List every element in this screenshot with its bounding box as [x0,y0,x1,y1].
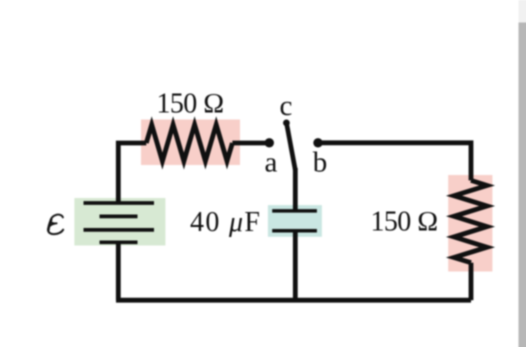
resistor R1 highlight [141,120,240,166]
svg-text:150 Ω: 150 Ω [157,88,225,119]
svg-text:c: c [280,90,293,122]
resistor R2 highlight [448,175,492,272]
resistor R2 zigzag [454,180,487,262]
capacitor C1 top plate [272,209,317,213]
label EMF script epsilon [48,215,63,235]
bottom wire [116,298,471,303]
wire: resistor R2 to bottom [469,263,474,301]
scrollbar thumb [519,23,526,347]
node c [283,120,290,127]
wire: capacitor to bottom wire [293,232,298,300]
svg-text:b: b [313,146,328,178]
svg-text:40 μF: 40 μF [190,207,260,238]
wire: battery bottom to bottom wire [116,241,121,301]
wire: resistor R1 to node a [232,141,268,146]
wire: node b to resistor R2 [318,143,471,181]
resistor R1 zigzag [146,125,232,161]
battery plate short bottom [100,240,138,244]
wire: battery top to resistor R1 [118,143,146,205]
scrollbar track [519,0,526,347]
capacitor highlight [268,205,322,237]
battery plate short [100,215,138,219]
capacitor C1 bottom plate [272,229,317,233]
battery highlight [74,198,165,246]
battery plate long [84,228,155,232]
svg-text:a: a [265,146,278,178]
node b [313,138,322,147]
svg-text:150 Ω: 150 Ω [371,207,439,238]
switch arm c to center wire [287,124,296,171]
node a [265,138,274,147]
wire: switch to capacitor [293,168,298,210]
battery plate long top [84,201,155,205]
